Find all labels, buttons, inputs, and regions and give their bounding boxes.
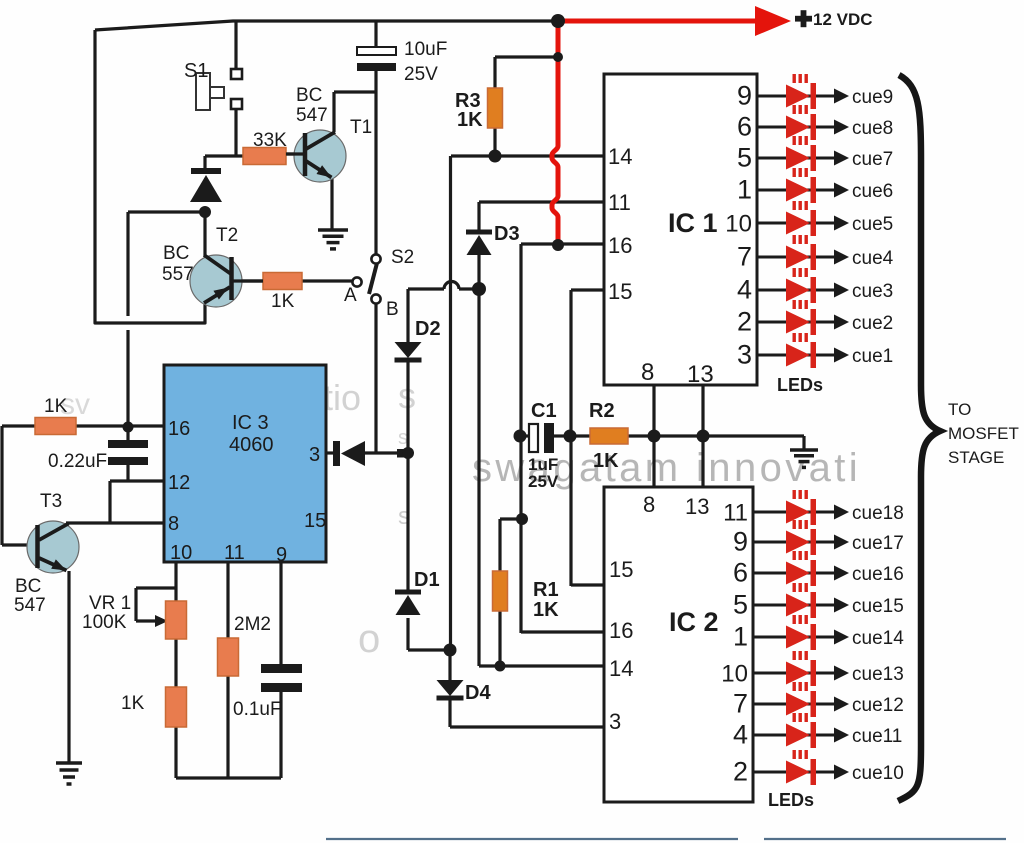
svg-text:1K: 1K: [271, 291, 295, 312]
svg-text:3: 3: [737, 340, 752, 370]
svg-text:cue2: cue2: [852, 313, 893, 334]
svg-text:1K: 1K: [44, 396, 68, 417]
svg-text:8: 8: [641, 359, 654, 386]
svg-text:16: 16: [609, 618, 633, 643]
svg-text:5: 5: [733, 590, 748, 620]
svg-text:2: 2: [733, 757, 748, 787]
svg-text:12 VDC: 12 VDC: [813, 10, 873, 29]
svg-text:11: 11: [608, 190, 631, 215]
svg-text:11: 11: [723, 500, 748, 527]
svg-text:7: 7: [733, 689, 748, 719]
svg-text:9: 9: [733, 527, 748, 557]
svg-text:14: 14: [608, 144, 632, 169]
svg-text:1K: 1K: [457, 109, 483, 131]
svg-text:2M2: 2M2: [234, 614, 271, 635]
svg-text:LEDs: LEDs: [777, 375, 823, 395]
svg-text:3: 3: [609, 709, 621, 734]
svg-text:cue16: cue16: [852, 564, 904, 585]
svg-text:A: A: [344, 285, 357, 306]
svg-text:1K: 1K: [533, 599, 559, 621]
svg-text:1K: 1K: [593, 450, 619, 472]
svg-text:cue17: cue17: [852, 533, 904, 554]
svg-text:9: 9: [276, 544, 287, 566]
svg-text:6: 6: [733, 558, 748, 588]
svg-text:TO: TO: [948, 400, 971, 419]
svg-text:15: 15: [609, 557, 633, 582]
svg-text:25V: 25V: [404, 64, 438, 85]
svg-text:o: o: [358, 617, 380, 661]
svg-text:16: 16: [608, 233, 632, 258]
svg-text:T1: T1: [350, 117, 372, 138]
svg-text:D4: D4: [465, 682, 491, 704]
svg-text:25V: 25V: [528, 472, 559, 491]
svg-text:4060: 4060: [229, 434, 274, 456]
svg-text:33K: 33K: [253, 130, 287, 151]
svg-text:cue4: cue4: [852, 248, 894, 269]
svg-text:100K: 100K: [82, 612, 127, 633]
svg-text:6: 6: [737, 112, 752, 142]
svg-text:IC 2: IC 2: [669, 607, 719, 637]
svg-text:cue12: cue12: [852, 695, 904, 716]
svg-text:10: 10: [721, 661, 748, 688]
svg-text:BC: BC: [15, 576, 41, 597]
svg-text:B: B: [386, 299, 399, 320]
svg-text:547: 547: [296, 105, 328, 126]
svg-text:10uF: 10uF: [404, 39, 447, 60]
svg-text:10: 10: [170, 542, 192, 564]
svg-text:T3: T3: [40, 491, 62, 512]
svg-text:11: 11: [224, 542, 245, 564]
svg-text:R2: R2: [589, 400, 615, 422]
svg-text:IC 1: IC 1: [668, 208, 718, 238]
svg-text:3: 3: [309, 444, 320, 466]
svg-text:12: 12: [168, 472, 190, 494]
svg-text:1: 1: [737, 175, 752, 205]
svg-text:2: 2: [737, 307, 752, 337]
svg-text:D2: D2: [415, 318, 441, 340]
svg-text:T2: T2: [216, 225, 238, 246]
svg-text:15: 15: [304, 510, 326, 532]
svg-text:VR 1: VR 1: [89, 593, 131, 614]
svg-text:IC 3: IC 3: [232, 412, 269, 434]
svg-text:BC: BC: [296, 85, 322, 106]
svg-text:13: 13: [687, 361, 714, 388]
svg-text:1: 1: [733, 622, 748, 652]
svg-text:cue6: cue6: [852, 181, 893, 202]
svg-text:13: 13: [685, 494, 709, 519]
svg-text:0.22uF: 0.22uF: [48, 451, 107, 472]
svg-text:4: 4: [733, 720, 748, 750]
svg-text:D1: D1: [414, 569, 440, 591]
svg-text:cue5: cue5: [852, 214, 893, 235]
svg-text:cue3: cue3: [852, 281, 893, 302]
svg-text:cue14: cue14: [852, 628, 904, 649]
svg-text:16: 16: [168, 418, 190, 440]
svg-text:10: 10: [725, 211, 752, 238]
svg-text:8: 8: [168, 513, 179, 535]
svg-text:cue9: cue9: [852, 87, 893, 108]
svg-text:0.1uF: 0.1uF: [233, 699, 282, 720]
svg-text:4: 4: [737, 275, 752, 305]
svg-text:D3: D3: [494, 223, 520, 245]
svg-text:cue11: cue11: [852, 726, 902, 747]
svg-text:cue18: cue18: [852, 503, 904, 524]
svg-text:9: 9: [737, 81, 752, 111]
svg-text:cue1: cue1: [852, 346, 893, 367]
svg-text:BC: BC: [163, 243, 189, 264]
svg-text:8: 8: [643, 492, 655, 517]
svg-text:cue8: cue8: [852, 118, 893, 139]
svg-text:S2: S2: [391, 247, 414, 268]
svg-text:C1: C1: [531, 400, 557, 422]
svg-text:cue7: cue7: [852, 149, 893, 170]
svg-text:1K: 1K: [121, 693, 145, 714]
svg-text:R1: R1: [533, 579, 559, 601]
svg-text:5: 5: [737, 143, 752, 173]
svg-text:547: 547: [14, 595, 46, 616]
svg-text:15: 15: [608, 279, 632, 304]
svg-text:S1: S1: [184, 60, 208, 82]
svg-text:cue13: cue13: [852, 664, 904, 685]
svg-text:LEDs: LEDs: [768, 790, 814, 810]
svg-text:7: 7: [737, 242, 752, 272]
svg-text:557: 557: [162, 264, 194, 285]
svg-text:cue10: cue10: [852, 763, 904, 784]
svg-text:STAGE: STAGE: [948, 448, 1004, 467]
svg-text:MOSFET: MOSFET: [948, 424, 1019, 443]
svg-text:cue15: cue15: [852, 596, 904, 617]
svg-text:14: 14: [609, 656, 633, 681]
